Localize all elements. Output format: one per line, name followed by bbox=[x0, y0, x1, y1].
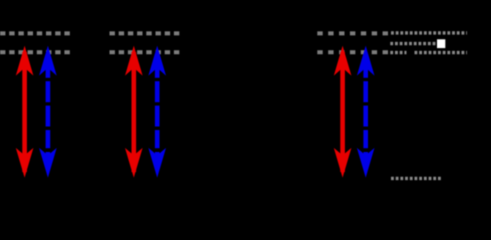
red double arrow group 3 bbox=[334, 46, 352, 178]
fine dashed line upper right bbox=[391, 31, 467, 34]
red double arrow group 2 bbox=[125, 46, 143, 178]
fine dashed line lower right segment b bbox=[415, 51, 468, 54]
blue dashed double arrow group 2 bbox=[148, 46, 166, 178]
fine dashed line lower right segment a bbox=[390, 51, 406, 54]
fine dashed line bottom right bbox=[391, 177, 441, 180]
red double arrow group 1 bbox=[16, 46, 34, 178]
blue dashed double arrow group 3 bbox=[357, 46, 375, 178]
level line lower group 3 coarse bbox=[317, 50, 388, 54]
white square marker bbox=[437, 39, 445, 48]
blue dashed double arrow group 1 bbox=[39, 46, 57, 178]
level line lower group 1 bbox=[0, 50, 71, 54]
fine dashed line middle right bbox=[390, 42, 437, 45]
level line upper group 3 coarse bbox=[317, 31, 388, 35]
level line lower group 2 bbox=[110, 50, 181, 54]
level line upper group 1 bbox=[0, 31, 71, 35]
level line upper group 2 bbox=[110, 31, 181, 35]
